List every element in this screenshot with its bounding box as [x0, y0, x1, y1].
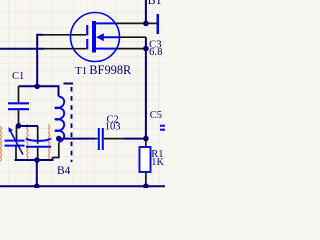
svg-text:BF998R: BF998R [89, 63, 132, 77]
svg-text:103: 103 [105, 121, 121, 132]
svg-text:T1: T1 [75, 65, 87, 77]
svg-text:6.8: 6.8 [149, 46, 163, 58]
svg-text:B1: B1 [148, 0, 162, 7]
svg-text:B4: B4 [57, 165, 71, 177]
svg-text:C1: C1 [12, 71, 24, 82]
svg-text:1K: 1K [151, 157, 164, 168]
svg-text:C5: C5 [150, 110, 162, 121]
